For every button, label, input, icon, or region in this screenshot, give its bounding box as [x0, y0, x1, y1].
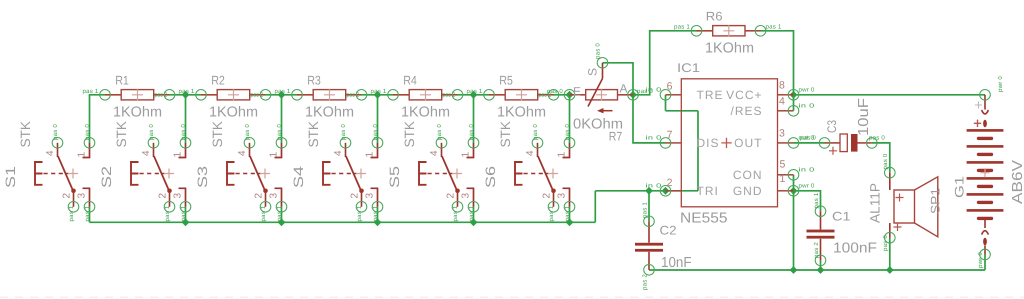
svg-text:pas 1: pas 1 — [179, 88, 195, 95]
svg-text:AL11P: AL11P — [868, 183, 883, 223]
svg-text:STK: STK — [114, 121, 129, 148]
wire GND pin 1 down to rail — [793, 191, 795, 270]
junction J1 top bus — [182, 91, 190, 99]
svg-text:/RES: /RES — [730, 104, 762, 118]
svg-text:pas 1: pas 1 — [68, 205, 75, 221]
svg-text:pas 1: pas 1 — [275, 88, 291, 95]
wire drop junction J3 to S4 pin 1 — [377, 95, 379, 143]
svg-text:pas 0: pas 0 — [882, 153, 889, 169]
svg-text:VCC+: VCC+ — [726, 88, 762, 102]
wire top bus segment start — [89, 94, 105, 96]
wire S5 pin 3 to bottom bus — [473, 207, 475, 223]
pin circle S2 pin 2 — [164, 202, 175, 213]
origin cross S2 — [164, 169, 174, 179]
svg-text:R4: R4 — [403, 73, 417, 87]
wire top bus segment after R2 — [266, 94, 298, 96]
wire drop to S1 pin 1 — [89, 95, 91, 143]
svg-text:AB6V: AB6V — [1010, 160, 1024, 204]
junction TRI pin 2 — [662, 187, 670, 195]
pin circle IC1 pin 1 — [788, 186, 799, 197]
pin circle R1 pin 2 — [164, 90, 175, 101]
pin circle R4 pin 1 — [388, 90, 399, 101]
wire pot A to DIS pin 7 — [633, 95, 666, 143]
svg-text:E: E — [573, 84, 581, 98]
wire TRI net horizontal — [595, 190, 698, 192]
pin circle R7 S — [597, 58, 608, 69]
wire pin 8 to pin 4 tie — [793, 95, 795, 111]
svg-text:S2: S2 — [99, 166, 114, 188]
resistor R2 — [201, 89, 266, 100]
wire bottom switch bus — [90, 221, 596, 223]
svg-text:pas 0: pas 0 — [84, 124, 91, 140]
IC1 origin cross — [721, 138, 731, 148]
svg-text:pas 2: pas 2 — [813, 242, 820, 258]
junction J5 top bus — [566, 91, 574, 99]
svg-text:5: 5 — [780, 159, 786, 171]
svg-text:3: 3 — [461, 193, 472, 199]
battery G1 bottom connector — [982, 218, 989, 254]
svg-text:3: 3 — [365, 193, 376, 199]
svg-text:pas 1: pas 1 — [766, 24, 782, 31]
pin circle S4 pin 2 — [356, 202, 367, 213]
polarized capacitor C3 — [825, 134, 872, 155]
svg-text:2: 2 — [62, 193, 73, 199]
battery G1 gray cross — [975, 102, 982, 109]
wire TRE pin drop — [665, 95, 667, 111]
svg-text:1KOhm: 1KOhm — [209, 104, 258, 120]
svg-text:pas 1: pas 1 — [372, 205, 379, 221]
svg-text:STK: STK — [402, 121, 417, 148]
pin circle R7 A — [628, 90, 639, 101]
pin circle S1 pin 2 — [68, 202, 79, 213]
svg-text:in 0: in 0 — [646, 134, 663, 141]
svg-text:IC1: IC1 — [677, 61, 700, 75]
pin circle R5 pin 2 — [548, 90, 559, 101]
svg-text:3: 3 — [77, 193, 88, 199]
wire VCC rail to battery — [794, 94, 986, 96]
wire pot A junction to R6 — [633, 31, 697, 95]
wire bottom bus riser to TRI net — [594, 191, 596, 223]
switch S2 — [131, 143, 186, 207]
svg-text:TRE: TRE — [697, 88, 724, 102]
svg-text:in 0: in 0 — [646, 182, 663, 189]
IC1 pin 3 stub — [778, 142, 794, 144]
svg-text:7: 7 — [667, 129, 673, 141]
svg-text:DIS: DIS — [697, 136, 720, 150]
svg-text:1KOhm: 1KOhm — [113, 104, 162, 120]
svg-text:pas 0: pas 0 — [180, 124, 187, 140]
IC1 pin 2 stub — [666, 190, 682, 192]
svg-text:in 0: in 0 — [799, 166, 816, 173]
svg-text:2: 2 — [667, 177, 673, 189]
svg-text:R2: R2 — [211, 73, 225, 87]
svg-text:pas 0: pas 0 — [564, 124, 571, 140]
svg-text:TRI: TRI — [697, 184, 719, 198]
svg-text:4: 4 — [45, 150, 56, 156]
wire drop junction J5 to S6 pin 1 — [569, 95, 571, 143]
svg-text:pas 1: pas 1 — [468, 205, 475, 221]
pin circle G1 + — [980, 90, 991, 101]
battery G1 cells — [967, 129, 1004, 218]
svg-text:pas 1: pas 1 — [674, 24, 690, 31]
pin circle S5 pin 1 — [468, 138, 479, 149]
pin circle S6 pin 4 — [532, 138, 543, 149]
svg-text:pas 0: pas 0 — [595, 43, 602, 59]
svg-text:NE555: NE555 — [680, 211, 728, 227]
svg-text:pas 1: pas 1 — [642, 202, 649, 218]
svg-text:CON: CON — [733, 168, 763, 182]
svg-text:pas 2: pas 2 — [155, 92, 168, 99]
pin circle S2 pin 3 — [180, 202, 191, 213]
svg-text:1: 1 — [557, 152, 568, 158]
svg-text:A: A — [620, 82, 628, 96]
svg-text:2: 2 — [350, 193, 361, 199]
svg-text:4: 4 — [237, 150, 248, 156]
svg-text:pas 0: pas 0 — [547, 88, 563, 95]
svg-text:C3: C3 — [825, 120, 839, 133]
svg-text:pwr 0: pwr 0 — [799, 182, 815, 189]
IC1 pin 4 stub — [778, 110, 794, 112]
pin circle SP1 pin 2 — [885, 232, 896, 243]
svg-text:3: 3 — [557, 193, 568, 199]
wire OUT pin 3 to C3 — [794, 142, 825, 144]
switch S4 — [323, 143, 378, 207]
svg-text:10uF: 10uF — [856, 98, 872, 136]
resistor R6 — [697, 25, 761, 36]
resistor R4 — [393, 89, 458, 100]
svg-text:C2: C2 — [660, 224, 677, 238]
switch S1 — [35, 143, 90, 207]
svg-text:pas 1: pas 1 — [180, 205, 187, 221]
svg-text:4: 4 — [141, 150, 152, 156]
pin circle R2 pin 1 — [196, 90, 207, 101]
battery G1 plus mark — [974, 120, 981, 127]
svg-text:pas 1: pas 1 — [564, 205, 571, 221]
IC1 pin 6 stub — [666, 94, 682, 96]
pin circle R4 pin 2 — [452, 90, 463, 101]
wire speaker to ground rail — [889, 238, 891, 270]
svg-text:pas 1: pas 1 — [548, 205, 555, 221]
svg-text:pas 0: pas 0 — [340, 124, 347, 140]
junction GND rail at C1 — [817, 266, 825, 274]
wire pot wiper S loop — [603, 63, 634, 95]
svg-text:G1: G1 — [953, 176, 967, 198]
wire R6 to VCC pin 8 — [761, 31, 794, 95]
pin circle S1 pin 1 — [84, 138, 95, 149]
pin circle IC1 pin 7 — [660, 138, 671, 149]
svg-text:pas 1: pas 1 — [813, 192, 820, 208]
wire C1 bottom to rail — [820, 260, 822, 270]
svg-text:pwr 0: pwr 0 — [997, 76, 1004, 92]
origin cross S6 — [548, 169, 558, 179]
pin circle C1 pin 1 — [815, 206, 826, 217]
pin circle R7 E — [564, 90, 575, 101]
wire S1 pin 3 to bottom bus — [89, 207, 91, 223]
wire drop junction J1 to S2 pin 1 — [185, 95, 187, 143]
pin circle S3 pin 2 — [260, 202, 271, 213]
junction GND pin 1 — [790, 187, 798, 195]
pin circle S2 pin 1 — [180, 138, 191, 149]
junction GND rail at speaker — [886, 266, 894, 274]
wire C3 to speaker — [872, 143, 890, 173]
pin circle G1 - — [980, 249, 991, 260]
pin circle S3 pin 4 — [244, 138, 255, 149]
pin circle S3 pin 3 — [276, 202, 287, 213]
op-amp timer IC1 NE555 body — [681, 79, 777, 207]
junction J3 top bus — [374, 91, 382, 99]
svg-text:pas 0: pas 0 — [52, 124, 59, 140]
pin circle SP1 pin 1 — [885, 167, 896, 178]
wire top bus segment after R5 — [554, 94, 570, 96]
junction GND rail at IC drop — [790, 266, 798, 274]
svg-text:STK: STK — [306, 121, 321, 148]
svg-text:4: 4 — [333, 150, 344, 156]
svg-text:pas 0: pas 0 — [468, 124, 475, 140]
origin cross S4 — [356, 169, 366, 179]
svg-text:STK: STK — [210, 121, 225, 148]
junction pot A node — [629, 91, 637, 99]
svg-text:1KOhm: 1KOhm — [705, 40, 754, 56]
svg-text:1KOhm: 1KOhm — [497, 104, 546, 120]
pin circle S4 pin 3 — [372, 202, 383, 213]
resistor R5 — [489, 89, 554, 100]
junction S3 pin 3 on bottom bus — [278, 218, 286, 226]
svg-text:1: 1 — [269, 152, 280, 158]
speaker SP1 — [890, 173, 938, 238]
svg-text:2: 2 — [254, 193, 265, 199]
wire C2 drop — [648, 191, 650, 222]
svg-text:1: 1 — [365, 152, 376, 158]
svg-text:STK: STK — [18, 121, 33, 148]
svg-text:SP1: SP1 — [929, 188, 943, 214]
svg-text:2: 2 — [446, 193, 457, 199]
svg-text:pas 2: pas 2 — [251, 92, 264, 99]
wire drop junction J2 to S3 pin 1 — [281, 95, 283, 143]
svg-text:pas 2: pas 2 — [443, 92, 456, 99]
pin circle IC1 pin 2 — [660, 186, 671, 197]
pin circle R1 pin 1 — [100, 90, 111, 101]
svg-text:4: 4 — [429, 150, 440, 156]
pin circle S6 pin 1 — [564, 138, 575, 149]
junction C2 tap — [645, 187, 653, 195]
svg-text:pas 0: pas 0 — [436, 124, 443, 140]
pin circle S3 pin 1 — [276, 138, 287, 149]
pin circle IC1 pin 4 — [788, 106, 799, 117]
junction VCC pin 8 — [790, 91, 798, 99]
wire S3 pin 3 to bottom bus — [281, 207, 283, 223]
svg-text:1KOhm: 1KOhm — [401, 104, 450, 120]
pin circle R5 pin 1 — [484, 90, 495, 101]
pin circle S1 pin 3 — [84, 202, 95, 213]
wire S4 pin 3 to bottom bus — [377, 207, 379, 223]
wire ground rail — [649, 269, 985, 271]
pin circle C1 pin 2 — [815, 255, 826, 266]
pin circle IC1 pin 6 — [660, 90, 671, 101]
svg-text:3: 3 — [779, 128, 785, 140]
wire TRI loop vertical — [697, 111, 699, 191]
origin cross S1 — [68, 169, 78, 179]
svg-text:1: 1 — [173, 152, 184, 158]
svg-text:GND: GND — [733, 184, 763, 198]
svg-text:pas 1: pas 1 — [276, 205, 283, 221]
junction J4 top bus — [470, 91, 478, 99]
svg-text:pas 0: pas 0 — [532, 124, 539, 140]
svg-text:S6: S6 — [483, 166, 498, 188]
wire drop junction J4 to S5 pin 1 — [473, 95, 475, 143]
pin circle S6 pin 3 — [564, 202, 575, 213]
svg-text:2: 2 — [158, 193, 169, 199]
pin circle IC1 pin 5 — [788, 170, 799, 181]
capacitor C2 — [635, 221, 663, 269]
switch S5 — [419, 143, 474, 207]
svg-text:4: 4 — [525, 150, 536, 156]
svg-text:S3: S3 — [195, 166, 210, 188]
svg-text:pas 0: pas 0 — [869, 134, 885, 141]
svg-text:100nF: 100nF — [833, 241, 877, 257]
svg-text:pas 0: pas 0 — [276, 124, 283, 140]
svg-text:4: 4 — [779, 96, 785, 108]
resistor R1 — [105, 89, 170, 100]
pin circle R6 pin 2 — [755, 26, 766, 37]
svg-text:pas 1: pas 1 — [371, 88, 387, 95]
junction J2 top bus — [278, 91, 286, 99]
pin circle S6 pin 2 — [548, 202, 559, 213]
origin cross S3 — [260, 169, 270, 179]
svg-text:1: 1 — [77, 152, 88, 158]
junction pot E pin — [566, 91, 574, 99]
svg-text:pas 1: pas 1 — [83, 88, 99, 95]
svg-text:10nF: 10nF — [661, 255, 692, 271]
svg-text:pas 1: pas 1 — [84, 205, 91, 221]
pin circle S5 pin 4 — [436, 138, 447, 149]
svg-text:R7: R7 — [609, 130, 623, 144]
svg-text:3: 3 — [173, 193, 184, 199]
svg-text:S: S — [586, 68, 600, 76]
svg-text:pas 1: pas 1 — [452, 205, 459, 221]
pin circle IC1 pin 8 — [788, 90, 799, 101]
svg-text:pas 2: pas 2 — [642, 274, 649, 290]
svg-text:8: 8 — [779, 80, 785, 92]
svg-text:S4: S4 — [291, 165, 306, 188]
potentiometer R7 — [570, 63, 634, 114]
origin cross S5 — [452, 169, 462, 179]
IC1 pin 1 stub — [778, 190, 794, 192]
wire S6 pin 3 to bottom bus — [569, 207, 571, 223]
svg-text:pas 2: pas 2 — [347, 92, 360, 99]
svg-text:S5: S5 — [387, 166, 402, 188]
faint bottom frame dashes — [0, 296, 1024, 298]
wire CON pin 5 to GND pin 1 — [793, 175, 795, 191]
svg-text:pas 1: pas 1 — [164, 205, 171, 221]
pin circle C2 pin 2 — [644, 265, 655, 276]
wire top bus segment after R3 — [362, 94, 394, 96]
svg-text:R5: R5 — [499, 73, 513, 87]
svg-text:C1: C1 — [832, 210, 851, 224]
pin circle C3 + — [819, 138, 830, 149]
wire top bus segment after R4 — [458, 94, 490, 96]
svg-text:in 0: in 0 — [646, 86, 663, 93]
svg-text:pas 1: pas 1 — [467, 88, 483, 95]
svg-text:1: 1 — [461, 152, 472, 158]
IC1 pin 8 stub — [778, 94, 794, 96]
pin circle R2 pin 2 — [260, 90, 271, 101]
svg-text:pas 1: pas 1 — [356, 205, 363, 221]
switch S6 — [515, 143, 570, 207]
svg-text:3: 3 — [269, 193, 280, 199]
junction S2 pin 3 on bottom bus — [182, 218, 190, 226]
svg-text:pas 1: pas 1 — [260, 205, 267, 221]
pin circle R3 pin 2 — [356, 90, 367, 101]
wire S2 pin 3 to bottom bus — [185, 207, 187, 223]
IC1 pin 7 stub — [666, 142, 682, 144]
svg-text:pwr 0: pwr 0 — [799, 86, 815, 93]
pin circle S4 pin 4 — [340, 138, 351, 149]
svg-text:pas 0: pas 0 — [800, 134, 816, 141]
svg-text:1KOhm: 1KOhm — [305, 104, 354, 120]
svg-text:6: 6 — [667, 81, 673, 93]
svg-text:pas 0: pas 0 — [148, 124, 155, 140]
pin circle R6 pin 1 — [691, 26, 702, 37]
svg-text:pas 0: pas 0 — [882, 235, 889, 251]
junction S5 pin 3 on bottom bus — [470, 218, 478, 226]
pin circle S5 pin 2 — [452, 202, 463, 213]
svg-text:R6: R6 — [706, 10, 723, 24]
resistor R3 — [297, 89, 362, 100]
svg-text:pwr 0: pwr 0 — [977, 252, 984, 268]
pin circle R3 pin 1 — [292, 90, 303, 101]
svg-text:pas 0: pas 0 — [372, 124, 379, 140]
svg-text:2: 2 — [542, 193, 553, 199]
pin circle IC1 pin 3 — [788, 138, 799, 149]
wire GND branch to C1 — [794, 191, 821, 211]
wire battery bottom riser — [984, 255, 986, 271]
IC1 pin 5 stub — [778, 174, 794, 176]
svg-text:OUT: OUT — [734, 136, 762, 150]
wire top bus segment after R1 — [170, 94, 202, 96]
pin circle S5 pin 3 — [468, 202, 479, 213]
capacitor C1 — [807, 211, 835, 260]
junction S4 pin 3 on bottom bus — [374, 218, 382, 226]
pin circle C2 pin 1 — [644, 216, 655, 227]
svg-text:pas 0: pas 0 — [244, 124, 251, 140]
switch S3 — [227, 143, 282, 207]
svg-text:S1: S1 — [3, 166, 18, 188]
pin circle C3 - — [867, 138, 878, 149]
battery G1 origin cross — [981, 168, 990, 177]
wire TRI loop to TRE — [666, 110, 699, 112]
junction S6 pin 3 on bottom bus — [566, 218, 574, 226]
svg-text:R1: R1 — [115, 73, 129, 87]
pin circle S4 pin 1 — [372, 138, 383, 149]
svg-text:in 0: in 0 — [799, 102, 816, 109]
pin circle S2 pin 4 — [148, 138, 159, 149]
pin circle S1 pin 4 — [52, 138, 63, 149]
battery G1 — [982, 95, 989, 127]
svg-text:R3: R3 — [307, 73, 321, 87]
svg-text:STK: STK — [498, 121, 513, 148]
svg-text:1: 1 — [780, 173, 786, 185]
